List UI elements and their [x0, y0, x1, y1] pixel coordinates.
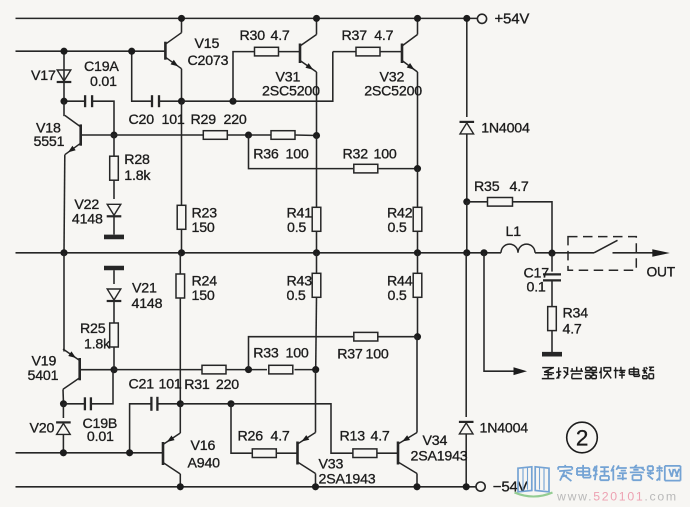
svg-text:2: 2 [576, 426, 588, 451]
svg-text:220: 220 [216, 377, 239, 393]
svg-text:0.5: 0.5 [388, 288, 407, 304]
svg-text:1N4004: 1N4004 [480, 421, 529, 437]
svg-text:1N4004: 1N4004 [481, 121, 530, 137]
svg-text:2SA1943: 2SA1943 [411, 448, 468, 464]
svg-text:0.1: 0.1 [527, 279, 546, 295]
svg-text:1.8k: 1.8k [124, 168, 151, 184]
svg-text:C21: C21 [129, 377, 155, 393]
svg-text:0.01: 0.01 [87, 429, 114, 445]
svg-text:4.7: 4.7 [371, 429, 390, 445]
svg-text:4.7: 4.7 [271, 28, 290, 44]
svg-text:0.5: 0.5 [287, 220, 306, 236]
svg-text:R36: R36 [253, 147, 279, 163]
svg-text:www.520101.com: www.520101.com [556, 490, 678, 504]
svg-text:5401: 5401 [28, 368, 59, 384]
svg-text:V34: V34 [423, 433, 448, 449]
svg-text:R37: R37 [342, 28, 368, 44]
svg-text:4.7: 4.7 [271, 429, 290, 445]
svg-text:150: 150 [192, 220, 215, 236]
svg-text:R29: R29 [191, 112, 217, 128]
svg-text:C2073: C2073 [188, 53, 229, 69]
svg-text:4.7: 4.7 [510, 179, 529, 195]
svg-text:2SC5200: 2SC5200 [262, 84, 320, 100]
svg-text:R28: R28 [124, 152, 150, 168]
svg-text:R33: R33 [253, 346, 279, 362]
svg-text:100: 100 [286, 346, 309, 362]
svg-text:V16: V16 [191, 438, 216, 454]
svg-text:100: 100 [374, 147, 397, 163]
svg-text:R26: R26 [238, 429, 264, 445]
svg-text:5551: 5551 [34, 134, 65, 150]
svg-text:0.5: 0.5 [388, 220, 407, 236]
svg-text:R35: R35 [474, 179, 500, 195]
svg-text:101: 101 [162, 112, 185, 128]
svg-text:4.7: 4.7 [374, 28, 393, 44]
svg-text:4148: 4148 [132, 296, 163, 312]
svg-text:101: 101 [159, 377, 182, 393]
svg-text:V21: V21 [132, 281, 157, 297]
svg-text:OUT: OUT [647, 264, 676, 279]
svg-text:V19: V19 [32, 353, 57, 369]
svg-text:2SC5200: 2SC5200 [364, 84, 422, 100]
svg-text:R34: R34 [563, 306, 589, 322]
svg-text:4.7: 4.7 [563, 321, 582, 337]
svg-text:1.8k: 1.8k [84, 337, 111, 353]
svg-text:150: 150 [192, 288, 215, 304]
svg-text:R25: R25 [80, 321, 106, 337]
svg-text:R32: R32 [343, 147, 369, 163]
svg-text:V15: V15 [195, 36, 220, 52]
svg-text:+54V: +54V [495, 11, 530, 28]
svg-text:0.5: 0.5 [287, 288, 306, 304]
svg-text:100: 100 [286, 147, 309, 163]
svg-text:−54V: −54V [493, 478, 528, 495]
svg-text:R37: R37 [337, 347, 363, 363]
svg-text:C20: C20 [129, 112, 155, 128]
svg-text:A940: A940 [188, 455, 221, 471]
svg-text:4148: 4148 [72, 211, 103, 227]
svg-text:V33: V33 [319, 457, 344, 473]
svg-text:V20: V20 [30, 421, 55, 437]
svg-text:2SA1943: 2SA1943 [319, 472, 376, 488]
svg-text:C19A: C19A [84, 59, 119, 75]
svg-text:220: 220 [224, 112, 247, 128]
svg-text:0.01: 0.01 [90, 74, 117, 90]
svg-text:R31: R31 [184, 377, 210, 393]
svg-text:R13: R13 [340, 429, 366, 445]
svg-text:100: 100 [366, 347, 389, 363]
svg-text:L1: L1 [506, 224, 522, 240]
svg-text:R30: R30 [240, 28, 266, 44]
svg-text:V17: V17 [31, 68, 56, 84]
